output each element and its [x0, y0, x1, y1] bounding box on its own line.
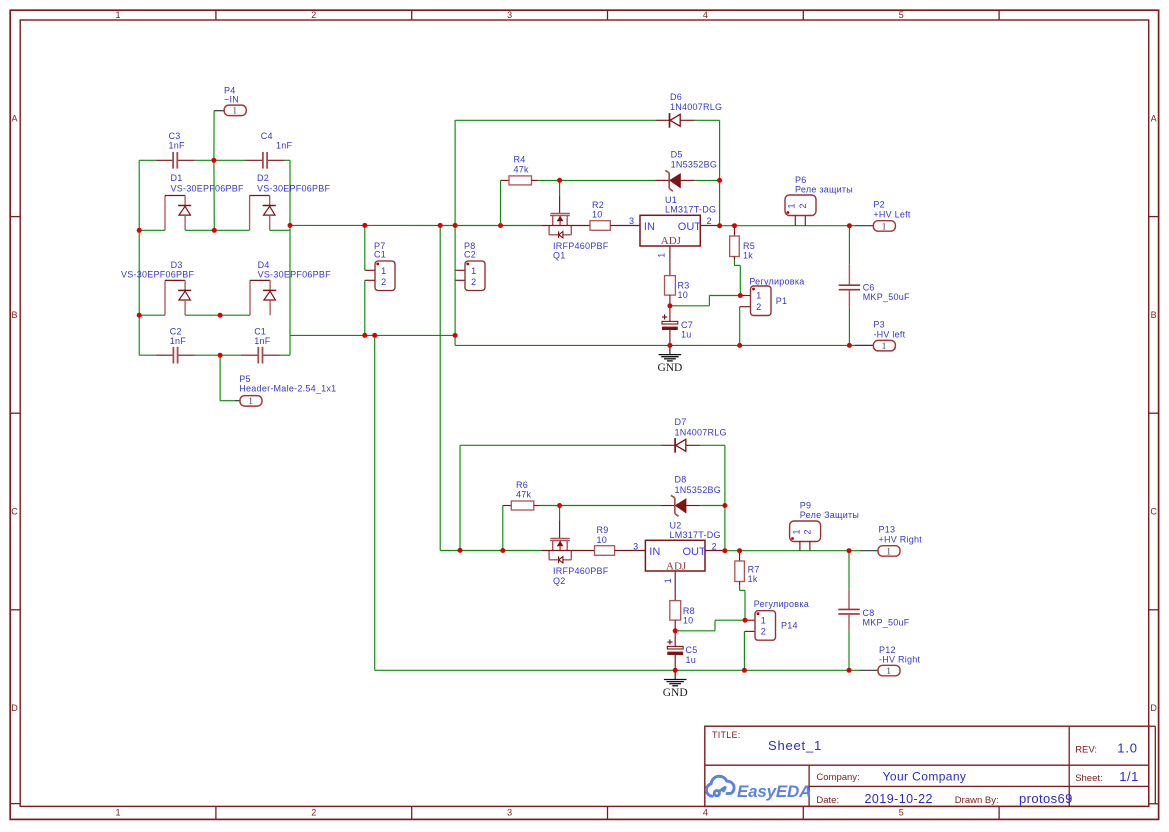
svg-text:10: 10	[678, 290, 689, 300]
svg-text:+HV Right: +HV Right	[879, 534, 923, 544]
svg-text:GND: GND	[657, 362, 682, 374]
svg-text:C4: C4	[261, 131, 273, 141]
svg-text:D4: D4	[258, 260, 270, 270]
svg-text:R7: R7	[748, 565, 760, 575]
svg-text:ADJ: ADJ	[666, 560, 687, 572]
svg-text:1N5352BG: 1N5352BG	[675, 485, 722, 495]
svg-text:1nF: 1nF	[170, 336, 187, 346]
svg-text:Header-Male-2.54_1x1: Header-Male-2.54_1x1	[239, 384, 336, 394]
svg-text:1: 1	[657, 253, 667, 258]
svg-text:P1: P1	[776, 296, 788, 306]
svg-text:C7: C7	[681, 320, 693, 330]
svg-text:10: 10	[597, 535, 608, 545]
svg-text:IRFP460PBF: IRFP460PBF	[553, 566, 609, 576]
svg-text:47k: 47k	[514, 164, 530, 174]
svg-text:1/1: 1/1	[1119, 769, 1139, 784]
svg-text:3: 3	[633, 541, 638, 551]
svg-text:1: 1	[886, 547, 891, 557]
svg-text:D5: D5	[671, 149, 683, 159]
svg-text:1: 1	[886, 667, 891, 677]
svg-text:2: 2	[707, 216, 712, 226]
svg-text:C2: C2	[464, 250, 476, 260]
svg-text:OUT: OUT	[683, 546, 707, 558]
svg-text:-HV left: -HV left	[873, 329, 905, 339]
svg-text:1: 1	[115, 808, 120, 818]
svg-text:2: 2	[803, 529, 813, 534]
svg-text:B: B	[11, 310, 17, 320]
svg-text:D3: D3	[171, 260, 183, 270]
svg-text:R3: R3	[678, 281, 690, 291]
svg-text:C1: C1	[374, 250, 386, 260]
svg-text:1: 1	[663, 578, 673, 583]
svg-text:D6: D6	[670, 92, 682, 102]
svg-text:IRFP460PBF: IRFP460PBF	[553, 241, 609, 251]
svg-text:5: 5	[899, 10, 904, 20]
svg-text:P3: P3	[873, 319, 885, 329]
svg-text:2: 2	[311, 10, 316, 20]
svg-text:P9: P9	[800, 500, 812, 510]
svg-text:ADJ: ADJ	[661, 235, 682, 247]
svg-text:1k: 1k	[743, 251, 753, 261]
svg-text:1.0: 1.0	[1117, 741, 1137, 756]
svg-text:LM317T-DG: LM317T-DG	[670, 530, 721, 540]
svg-text:~IN: ~IN	[224, 94, 239, 104]
svg-text:D2: D2	[257, 173, 269, 183]
svg-text:C: C	[1150, 507, 1157, 517]
svg-text:1: 1	[471, 266, 476, 276]
svg-text:D: D	[1150, 703, 1157, 713]
svg-text:Your Company: Your Company	[883, 769, 967, 783]
svg-text:5: 5	[899, 808, 904, 818]
svg-text:C5: C5	[686, 645, 698, 655]
svg-text:1u: 1u	[686, 655, 697, 665]
svg-text:Реле Защиты: Реле Защиты	[800, 510, 859, 520]
svg-text:1nF: 1nF	[169, 141, 186, 151]
svg-text:U1: U1	[665, 195, 677, 205]
svg-text:R4: R4	[514, 155, 526, 165]
svg-text:47k: 47k	[516, 490, 532, 500]
svg-text:1: 1	[756, 291, 761, 301]
svg-text:1k: 1k	[748, 574, 758, 584]
svg-text:TITLE:: TITLE:	[712, 730, 741, 740]
svg-text:EasyEDA: EasyEDA	[737, 782, 811, 801]
svg-text:MKP_50uF: MKP_50uF	[863, 292, 910, 302]
svg-text:1N4007RLG: 1N4007RLG	[670, 102, 722, 112]
svg-text:Date:: Date:	[816, 795, 839, 806]
svg-text:OUT: OUT	[678, 221, 702, 233]
svg-text:R9: R9	[597, 525, 609, 535]
svg-text:D1: D1	[171, 173, 183, 183]
svg-text:P12: P12	[879, 645, 896, 655]
svg-text:VS-30EPF06PBF: VS-30EPF06PBF	[257, 184, 331, 194]
svg-text:1: 1	[882, 222, 887, 232]
svg-text:2: 2	[761, 627, 766, 637]
svg-text:VS-30EPF06PBF: VS-30EPF06PBF	[121, 270, 195, 280]
svg-text:C6: C6	[863, 283, 875, 293]
svg-text:Регулировка: Регулировка	[749, 277, 804, 287]
svg-text:Company:: Company:	[816, 772, 859, 783]
svg-text:P2: P2	[873, 200, 885, 210]
svg-text:Sheet_1: Sheet_1	[768, 738, 822, 753]
svg-text:VS-30EPF06PBF: VS-30EPF06PBF	[258, 270, 332, 280]
svg-text:3: 3	[629, 216, 634, 226]
svg-text:VS-30EPF06PBF: VS-30EPF06PBF	[171, 184, 245, 194]
svg-text:1: 1	[761, 615, 766, 625]
svg-text:1: 1	[115, 10, 120, 20]
svg-text:1: 1	[248, 397, 253, 407]
svg-text:C3: C3	[169, 131, 181, 141]
svg-text:R6: R6	[516, 480, 528, 490]
svg-text:IN: IN	[644, 221, 655, 233]
svg-text:2: 2	[756, 302, 761, 312]
svg-text:Регулировка: Регулировка	[754, 599, 809, 609]
svg-text:D: D	[11, 703, 18, 713]
svg-text:1: 1	[791, 529, 801, 534]
svg-text:A: A	[11, 113, 17, 123]
svg-text:1N5352BG: 1N5352BG	[671, 159, 718, 169]
svg-text:+HV Left: +HV Left	[873, 210, 911, 220]
svg-text:Реле защиты: Реле защиты	[795, 185, 853, 195]
svg-text:D7: D7	[675, 417, 687, 427]
svg-text:D8: D8	[675, 475, 687, 485]
svg-text:2: 2	[471, 277, 476, 287]
svg-text:C1: C1	[254, 327, 266, 337]
svg-text:10: 10	[683, 616, 694, 626]
svg-text:C2: C2	[170, 327, 182, 337]
svg-text:R5: R5	[743, 241, 755, 251]
svg-text:A: A	[1151, 113, 1157, 123]
svg-text:Q1: Q1	[553, 251, 566, 261]
svg-text:IN: IN	[649, 546, 660, 558]
svg-text:1: 1	[232, 107, 237, 117]
svg-text:Q2: Q2	[553, 576, 566, 586]
svg-text:U2: U2	[670, 520, 682, 530]
svg-text:1nF: 1nF	[276, 141, 293, 151]
svg-text:REV:: REV:	[1075, 744, 1097, 755]
svg-text:1u: 1u	[681, 330, 692, 340]
svg-text:Sheet:: Sheet:	[1075, 773, 1102, 784]
svg-text:2019-10-22: 2019-10-22	[865, 792, 933, 806]
svg-text:B: B	[1151, 310, 1157, 320]
svg-text:10: 10	[592, 210, 603, 220]
svg-text:2: 2	[798, 203, 808, 208]
svg-text:-HV Right: -HV Right	[879, 655, 921, 665]
svg-text:2: 2	[381, 277, 386, 287]
svg-text:C: C	[11, 507, 18, 517]
svg-text:2: 2	[311, 808, 316, 818]
svg-text:R2: R2	[592, 200, 604, 210]
svg-text:1N4007RLG: 1N4007RLG	[675, 427, 727, 437]
svg-text:GND: GND	[663, 687, 688, 699]
svg-text:P5: P5	[239, 374, 251, 384]
svg-text:3: 3	[507, 808, 512, 818]
svg-text:4: 4	[703, 808, 708, 818]
svg-text:1: 1	[882, 342, 887, 352]
svg-text:P14: P14	[781, 621, 798, 631]
svg-text:LM317T-DG: LM317T-DG	[665, 205, 716, 215]
svg-text:3: 3	[507, 10, 512, 20]
svg-text:MKP_50uF: MKP_50uF	[863, 617, 910, 627]
svg-text:4: 4	[703, 10, 708, 20]
svg-text:Drawn By:: Drawn By:	[955, 795, 999, 806]
svg-text:1: 1	[381, 266, 386, 276]
svg-text:R8: R8	[683, 606, 695, 616]
svg-text:P13: P13	[879, 525, 896, 535]
svg-text:protos69: protos69	[1019, 791, 1073, 806]
svg-text:1nF: 1nF	[254, 336, 271, 346]
svg-text:2: 2	[712, 541, 717, 551]
svg-text:1: 1	[787, 203, 797, 208]
